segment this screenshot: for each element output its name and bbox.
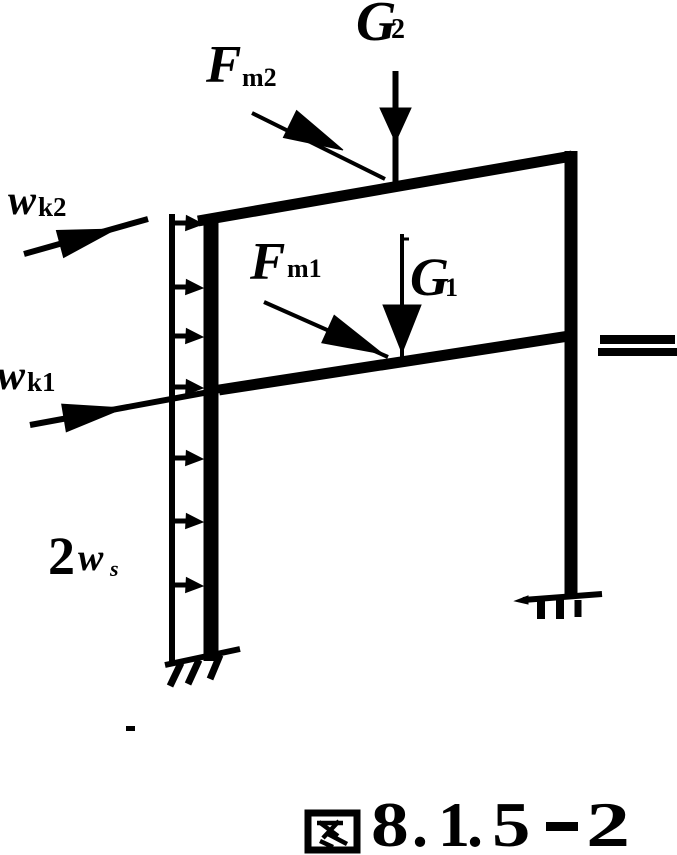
left ground hatch 3 xyxy=(210,655,220,679)
label wk2 xyxy=(8,178,67,224)
right column xyxy=(565,151,578,598)
svg-text:1: 1 xyxy=(438,789,470,855)
svg-text:F: F xyxy=(205,36,241,94)
wind arrow wk2 xyxy=(24,219,148,258)
top beam xyxy=(198,156,572,221)
right support base line xyxy=(515,594,602,604)
svg-text:2: 2 xyxy=(48,526,75,586)
wind load arrow 1 xyxy=(172,216,203,231)
svg-text:F: F xyxy=(249,233,285,291)
wind load arrow 3 xyxy=(172,329,203,344)
label G2 xyxy=(356,0,405,53)
left ground hatch 1 xyxy=(170,663,181,686)
svg-text:w: w xyxy=(0,353,26,399)
svg-text:m1: m1 xyxy=(287,254,322,283)
wind load arrow 5 xyxy=(172,451,203,466)
label wk1 xyxy=(0,353,56,399)
label G1 xyxy=(410,247,458,307)
wind load arrow 2 xyxy=(172,280,203,295)
wind load arrow 7 xyxy=(172,578,203,593)
svg-text:w: w xyxy=(8,178,37,224)
label Fm1 xyxy=(249,233,322,291)
label Fm2 xyxy=(205,36,277,94)
left column xyxy=(204,215,219,661)
middle beam xyxy=(219,336,569,390)
svg-text:m2: m2 xyxy=(242,63,277,92)
svg-text:w: w xyxy=(78,537,104,579)
force arrow Fm2 xyxy=(252,111,385,180)
left ground hatch 2 xyxy=(188,660,199,684)
wind load arrow 4 xyxy=(172,380,203,395)
force arrow Fm1 xyxy=(264,302,388,357)
load arrow G1 xyxy=(383,234,421,367)
svg-text:G: G xyxy=(410,247,449,307)
caption text 8.1.5-2 xyxy=(371,789,630,855)
caption glyph tu xyxy=(308,813,357,850)
wind arrow wk1 xyxy=(30,385,247,432)
svg-text:2: 2 xyxy=(586,789,630,855)
label 2ws xyxy=(48,526,119,586)
svg-text:k2: k2 xyxy=(38,192,67,222)
svg-text:2: 2 xyxy=(391,14,405,45)
svg-text:.: . xyxy=(467,789,483,855)
svg-text:s: s xyxy=(109,556,119,581)
wind load band rail xyxy=(169,214,175,662)
svg-text:5: 5 xyxy=(492,790,530,855)
svg-text:k1: k1 xyxy=(27,367,56,397)
right ground tick 3 xyxy=(575,600,582,617)
svg-text:8: 8 xyxy=(371,790,409,855)
svg-text:.: . xyxy=(412,789,428,855)
stray mark xyxy=(126,726,135,731)
svg-text:1: 1 xyxy=(445,273,458,302)
equivalence sign xyxy=(598,335,677,356)
wind load arrow 6 xyxy=(172,514,203,529)
right ground tick 1 xyxy=(537,600,545,619)
left support base line xyxy=(165,649,240,665)
load arrow G2 xyxy=(380,71,411,183)
right ground tick 2 xyxy=(556,599,564,619)
